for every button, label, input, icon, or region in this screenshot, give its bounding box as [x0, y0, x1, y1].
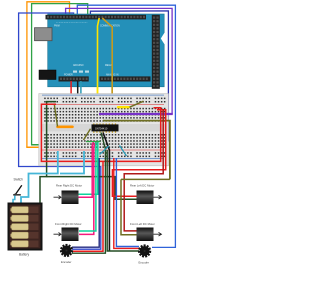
breadboard holes: [44, 98, 165, 158]
battery holder: [9, 204, 42, 250]
breadboard rail line red top: [42, 103, 164, 106]
wire mint to rear right motor: [78, 141, 98, 195]
wire red big loop: rail left-down-right-up: [41, 104, 160, 161]
svg-text:Front Right DC Motor: Front Right DC Motor: [55, 222, 82, 226]
wire teal diagonal right below chip: [120, 146, 127, 157]
wire blue outer: pin to right edge down to right encoder: [77, 5, 175, 247]
wire dark green from rail to battery: [40, 102, 56, 207]
svg-text:ARDUINO: ARDUINO: [73, 64, 84, 67]
wire mint to front right motor: [79, 142, 96, 231]
wire yellow over board redraw: [98, 18, 100, 108]
wire olive diagonal left: [54, 104, 57, 127]
wire gold: pin diagonal down across board into breadboard rail: [102, 18, 112, 100]
wire red from power header: [70, 81, 72, 104]
wire pink to rear right motor: [78, 141, 95, 198]
motor rear right: [54, 191, 79, 205]
wire olive diagonal at chip bottom-left: [84, 129, 91, 140]
breadboard rail line blue bottom: [42, 157, 164, 160]
bottom power header: [59, 76, 89, 81]
wire yellow jumper on breadboard: [118, 106, 129, 108]
bottom analog header: [100, 76, 151, 81]
wire maroon right: front-left motor feed: [124, 109, 163, 231]
breadboard rail line blue top: [42, 94, 164, 97]
svg-text:Encoder: Encoder: [139, 261, 149, 265]
wire orange jumper on breadboard: [58, 126, 73, 129]
wire teal diagonal left below chip: [100, 146, 110, 155]
wire green: lower horizontal into breadboard row: [31, 144, 101, 146]
power jack: [39, 70, 56, 80]
wire cyan: breadboard to switch row: [21, 151, 58, 204]
wire black diagonal pair below chip: [103, 133, 109, 252]
wire orange: top run from left vertical to pin D11: [27, 2, 70, 148]
wire dark green row to rear-left motor: [47, 177, 137, 200]
board silkscreen labels: [54, 22, 120, 77]
wire left blue: pin to left vertical down to bundle and left encoder: [19, 13, 101, 249]
wire yellow: pin down across board into breadboard: [98, 18, 100, 108]
right double pin header: [152, 15, 160, 89]
breadboard body: [39, 94, 169, 166]
battery cell 2: [11, 215, 39, 222]
motor rear left: [137, 191, 162, 205]
svg-text:POWER: POWER: [64, 75, 73, 77]
battery cell 3: [11, 224, 39, 231]
encoder right gear: [138, 244, 151, 257]
svg-text:Front Left DC Motor: Front Left DC Motor: [130, 222, 155, 226]
svg-text:Rear Right DC Motor: Rear Right DC Motor: [56, 184, 82, 188]
svg-text:PWM: PWM: [54, 26, 60, 28]
svg-text:17 16 15 14 13 12 11 10 9 8 7: 17 16 15 14 13 12 11 10 9 8 7 6 5 4 3 2: [56, 22, 87, 24]
wire navy to left encoder: [72, 158, 99, 247]
top pin header: [46, 15, 147, 20]
wire olive diagonal right: [130, 101, 144, 107]
wire orange: lower horizontal into breadboard row: [26, 146, 99, 148]
wire purple thick row on breadboard: [99, 113, 173, 115]
wire pink to front right motor: [79, 142, 97, 235]
wire olive: front-left motor green feed: [121, 178, 170, 180]
switch symbol: [13, 185, 22, 204]
svg-text:Rear Left DC Motor: Rear Left DC Motor: [130, 184, 154, 188]
breadboard center groove: [41, 124, 166, 131]
wire black from power header: [77, 81, 79, 100]
encoder left gear: [60, 244, 73, 257]
Arduino Mega board: [48, 14, 165, 87]
wire teal from power header: [80, 81, 82, 104]
wire blue to right encoder: [116, 158, 139, 247]
battery cell 4: [11, 232, 39, 239]
wire red to right encoder: [114, 158, 139, 248]
wire olive row on breadboard to right vertical down: [103, 121, 170, 180]
USB connector: [35, 28, 53, 41]
wire green: left vertical + top run to pin: [32, 4, 88, 145]
svg-text:Encoder: Encoder: [61, 260, 71, 264]
wire gold over board redraw: [102, 18, 112, 100]
motor front left: [137, 228, 162, 242]
wire red right: rear-left motor feed: [112, 110, 165, 196]
chip SN754410: [92, 123, 119, 132]
wire green short row: [86, 141, 101, 143]
battery cell 1: [11, 207, 39, 214]
wire purple: pin to right vertical down to breadboard purple row: [66, 8, 173, 114]
motor front right: [54, 228, 79, 242]
wire cyan second vertical: [60, 151, 84, 174]
svg-text:MEGA: MEGA: [105, 64, 112, 67]
breadboard rail line red bottom: [42, 149, 164, 152]
battery cell 5: [11, 241, 39, 248]
svg-text:Switch: Switch: [14, 178, 24, 182]
wire red branch down to left encoder: [72, 161, 103, 251]
svg-text:SN754410: SN754410: [95, 127, 108, 131]
top header pins: [47, 16, 145, 18]
wire dark green to left encoder: [72, 133, 105, 254]
svg-text:Battery: Battery: [19, 253, 30, 257]
wire navy: pin to right vertical into breadboard row h: [90, 11, 168, 141]
wire dark green right encoder: [107, 150, 139, 251]
